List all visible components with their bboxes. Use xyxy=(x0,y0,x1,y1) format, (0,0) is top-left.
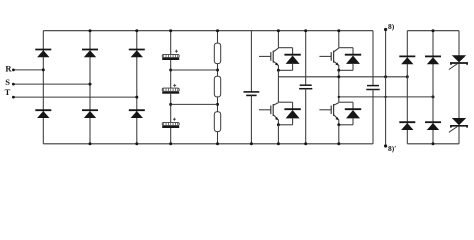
svg-text:8)′: 8)′ xyxy=(388,144,396,153)
svg-text:8): 8) xyxy=(388,22,395,31)
svg-text:T: T xyxy=(5,87,11,97)
svg-text:R: R xyxy=(5,64,12,74)
svg-text:S: S xyxy=(5,77,10,87)
